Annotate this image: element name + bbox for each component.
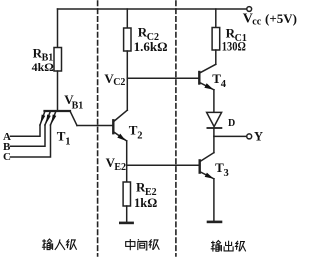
wire: node VC2 to T4 base: [127, 77, 199, 79]
resistor RB1: [54, 48, 62, 72]
wire: diode to Y node and T3 collector: [213, 128, 215, 153]
wire: T2 emitter to node VE2: [126, 141, 128, 165]
stage label 输出级 (output stage): [211, 241, 246, 252]
入: [55, 239, 65, 250]
transistor T3: [200, 153, 214, 179]
stage boundary dashed line 2: [175, 1, 177, 256]
stage boundary dashed line 1: [97, 1, 99, 256]
wire: RB1 to T1 base: [57, 71, 59, 111]
wire: RE2 to ground: [126, 206, 128, 223]
wire: input C: [11, 125, 51, 157]
wire: Y branch: [214, 135, 247, 137]
wire: T4 emitter to diode D: [213, 90, 215, 113]
级: [67, 239, 77, 250]
wire: rail to RC2: [126, 9, 128, 28]
label VE2: [106, 155, 126, 173]
svg-text:1.6kΩ: 1.6kΩ: [134, 39, 168, 54]
svg-text:C2: C2: [113, 77, 125, 88]
级: [236, 241, 246, 252]
transistor T4: [199, 64, 216, 90]
terminal Y: [247, 134, 252, 139]
svg-text:4: 4: [221, 79, 227, 90]
间: [138, 239, 147, 250]
svg-text:E2: E2: [114, 162, 126, 173]
ground (below RE2): [120, 222, 132, 225]
transistor T2: [113, 110, 127, 141]
ground (below T3): [208, 221, 221, 224]
label T1: [57, 129, 71, 148]
wire: RC1 to T4 collector: [215, 50, 217, 64]
label VB1: [64, 92, 83, 111]
级: [149, 239, 159, 250]
resistor RC2: [124, 28, 131, 51]
svg-text:B1: B1: [72, 101, 84, 112]
diode D: [207, 112, 222, 128]
wire: T1 collector to T2 base: [77, 125, 112, 127]
svg-text:D: D: [228, 118, 235, 129]
wire: rail to RC1: [215, 9, 217, 28]
label RE2: [136, 180, 157, 199]
label T2: [129, 123, 143, 142]
svg-text:cc: cc: [252, 17, 261, 28]
resistor RC1: [212, 28, 220, 51]
svg-text:1: 1: [65, 137, 70, 148]
svg-text:(+5V): (+5V): [265, 11, 297, 26]
label VC2: [104, 71, 125, 88]
wire: T3 emitter to ground: [213, 179, 215, 222]
wire: rail to RB1: [57, 9, 59, 48]
label T4: [212, 71, 226, 90]
resistor RE2: [123, 182, 130, 206]
svg-text:Y: Y: [254, 130, 263, 144]
label RC1: [226, 26, 247, 45]
wire: node VE2 to RE2: [126, 165, 128, 182]
svg-text:C: C: [3, 151, 11, 163]
label Vcc (+5V): [243, 11, 297, 28]
wire: RC2 to T2 collector (node VC2): [126, 51, 128, 110]
transistor T1 (multi-emitter): [40, 111, 77, 126]
输: [42, 239, 53, 250]
svg-text:1kΩ: 1kΩ: [134, 196, 157, 210]
中: [126, 239, 135, 250]
terminal Vcc: [247, 7, 252, 12]
wire: input B: [11, 125, 46, 146]
wire: node VE2 to T3 base: [127, 164, 200, 166]
stage label 中间级 (middle stage): [126, 239, 160, 250]
svg-text:V: V: [243, 12, 253, 27]
label RB1: [33, 45, 54, 63]
wire: input A: [11, 125, 41, 136]
svg-text:4kΩ: 4kΩ: [32, 60, 55, 74]
svg-text:2: 2: [137, 131, 142, 142]
label RC2: [138, 24, 159, 43]
stage label 输入级 (input stage): [42, 239, 77, 250]
输: [211, 241, 222, 252]
label T3: [215, 160, 229, 179]
svg-text:130Ω: 130Ω: [222, 39, 246, 54]
svg-text:3: 3: [224, 168, 229, 179]
wire: Vcc top rail: [58, 8, 247, 10]
出: [224, 241, 233, 251]
